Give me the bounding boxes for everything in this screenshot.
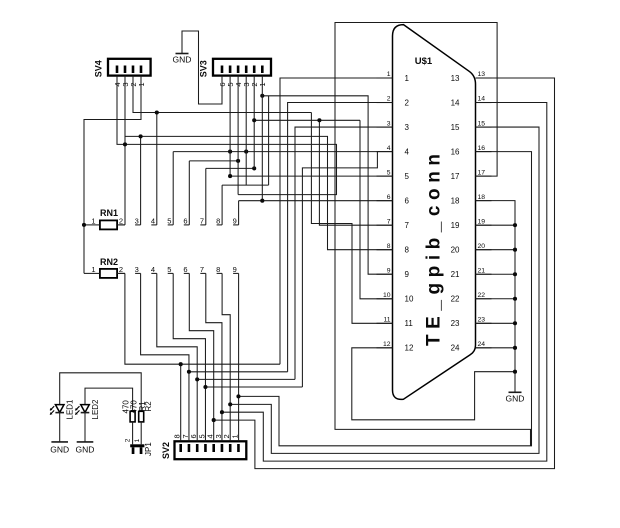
- svg-text:8: 8: [216, 265, 220, 274]
- svg-text:GND: GND: [76, 445, 95, 455]
- ground GND (below U$1): [506, 392, 525, 403]
- svg-text:GND: GND: [506, 394, 525, 404]
- svg-text:9: 9: [387, 267, 391, 274]
- wire SV4 pin2 net to U$1 pin11: [133, 76, 393, 324]
- junction GND bus 274: [513, 272, 517, 276]
- connector U$1 TE_gpib_conn body: [393, 25, 476, 400]
- svg-text:3: 3: [135, 217, 139, 226]
- svg-text:14: 14: [451, 98, 460, 107]
- resistor network RN1: [84, 208, 125, 229]
- wire U$1 pin15 / SV2 pin2 / RN2 pin8 net: [222, 127, 539, 453]
- junction SV2 pin2: [228, 402, 232, 406]
- svg-text:GND: GND: [50, 445, 69, 455]
- svg-text:U$1: U$1: [415, 56, 433, 67]
- svg-text:20: 20: [451, 246, 460, 255]
- svg-text:7: 7: [405, 221, 410, 230]
- wire RN1 pin6 to SV3 pin4: [189, 161, 238, 225]
- wire SV3 pin1 vertical: [261, 76, 263, 201]
- U$1 left pin stubs 1-12 with pad and pin numbers: [377, 71, 414, 353]
- wire U$1 pin12 to GND bus: [352, 348, 515, 420]
- SV4 pin labels 4 3 2 1: [113, 83, 146, 87]
- svg-text:5: 5: [405, 172, 410, 181]
- ground GND (top, SV3 pin 6): [173, 54, 192, 65]
- svg-text:5: 5: [167, 265, 171, 274]
- svg-text:1: 1: [230, 434, 239, 438]
- svg-text:5: 5: [167, 217, 171, 226]
- wire U$1 pin4 / SV2 pin5 / RN2 pin5 net: [173, 152, 392, 442]
- junction SV2 pin4: [212, 418, 216, 422]
- wire GND bus U$1 pins 18-24: [476, 201, 516, 393]
- svg-text:10: 10: [405, 295, 414, 304]
- svg-text:6: 6: [183, 265, 187, 274]
- svg-text:16: 16: [451, 147, 460, 156]
- svg-text:6: 6: [183, 217, 187, 226]
- wire U$1 pin13 / SV2 pin4 / RN2 pin6 net: [189, 78, 554, 469]
- wire RN1 pin5 / SV3 pin5 / U$1 pin4 row line: [173, 152, 377, 225]
- svg-text:7: 7: [200, 217, 204, 226]
- svg-text:1: 1: [91, 217, 95, 226]
- LED LED2: [75, 399, 100, 442]
- svg-text:5: 5: [387, 169, 391, 176]
- svg-text:3: 3: [387, 120, 391, 127]
- svg-text:16: 16: [478, 145, 486, 152]
- svg-text:R2: R2: [144, 401, 153, 412]
- svg-text:11: 11: [405, 319, 414, 328]
- SV3 pin labels 6 5 4 3 2 1: [218, 83, 267, 87]
- svg-text:21: 21: [451, 270, 460, 279]
- svg-text:15: 15: [478, 120, 486, 127]
- svg-text:RN1: RN1: [100, 208, 118, 218]
- junction SV3 pin4: [236, 159, 240, 163]
- junction on SV3 pin3: [244, 150, 248, 154]
- junction SV3 pin2 lower: [252, 166, 256, 170]
- wire RN1 pin9 / U$1 pin6 line: [239, 201, 393, 225]
- svg-text:13: 13: [451, 74, 460, 83]
- svg-text:17: 17: [478, 169, 486, 176]
- wire SV3 pin2 vertical: [253, 76, 255, 169]
- wire U$1 pin2 / SV2 pin7 / RN2 pin3 net: [141, 103, 393, 442]
- svg-text:1: 1: [91, 265, 95, 274]
- svg-text:24: 24: [478, 341, 486, 348]
- svg-text:3: 3: [405, 123, 410, 132]
- svg-text:23: 23: [451, 319, 460, 328]
- svg-text:7: 7: [200, 265, 204, 274]
- svg-text:19: 19: [451, 221, 460, 230]
- svg-text:20: 20: [478, 243, 486, 250]
- connector SV2: [161, 441, 246, 459]
- connector SV3: [199, 59, 272, 77]
- svg-text:2: 2: [119, 217, 123, 226]
- U$1 right pin stubs 13-24 with pad and pin numbers: [451, 71, 492, 353]
- svg-text:JP1: JP1: [144, 442, 153, 456]
- svg-text:1: 1: [387, 71, 391, 78]
- svg-text:470: 470: [129, 400, 138, 414]
- svg-text:13: 13: [478, 71, 486, 78]
- svg-text:15: 15: [451, 123, 460, 132]
- junction GND bus 348: [513, 346, 517, 350]
- junction SV2 pin3: [220, 410, 224, 414]
- svg-text:8: 8: [387, 243, 391, 250]
- svg-text:2: 2: [124, 438, 131, 442]
- RN2 pin labels and stubs 1..9: [91, 265, 238, 274]
- wire U$1 pin16 / SV2 pin1 / RN2 pin9 net: [238, 152, 531, 446]
- wire line A RN1 pin3 to U$1 pin8: [125, 136, 392, 249]
- wire SV4 pin4 line B: [117, 76, 337, 195]
- resistor R2: [139, 411, 144, 444]
- junction on SV3 pin5: [228, 150, 232, 154]
- RN1 pin labels and stubs 1..9: [91, 217, 238, 226]
- junction line B / SV4 pin3: [123, 142, 127, 146]
- svg-text:9: 9: [405, 270, 410, 279]
- jumper JP1: [130, 442, 153, 456]
- svg-text:TE_gpib_conn: TE_gpib_conn: [424, 154, 445, 346]
- svg-text:8: 8: [216, 217, 220, 226]
- wire U$1 pin1 / SV2 pin8 / RN2 pin2 net: [125, 78, 393, 441]
- wire RN1 pin8 / SV3 pin3: [222, 76, 269, 225]
- svg-text:8: 8: [405, 246, 410, 255]
- svg-text:SV2: SV2: [161, 442, 171, 459]
- svg-text:4: 4: [151, 265, 155, 274]
- svg-text:18: 18: [478, 194, 486, 201]
- junction SV3 pin1 upper: [260, 94, 264, 98]
- svg-text:RN2: RN2: [100, 257, 118, 267]
- svg-text:6: 6: [387, 194, 391, 201]
- svg-text:1: 1: [134, 438, 141, 442]
- svg-text:24: 24: [451, 344, 460, 353]
- junction GND bus 323: [513, 321, 517, 325]
- svg-text:18: 18: [451, 197, 460, 206]
- junction SV4 pin2 / RN1 pin4: [155, 110, 159, 114]
- svg-text:1: 1: [405, 74, 410, 83]
- junction SV3 pin2 upper: [252, 118, 256, 122]
- svg-text:2: 2: [119, 265, 123, 274]
- junction GND bus shield: [513, 370, 517, 374]
- wire LED1 to R2 bridge: [60, 373, 142, 412]
- wire U$1 pin14 / SV2 pin3 / RN2 pin7 net: [206, 103, 547, 462]
- svg-text:17: 17: [451, 172, 460, 181]
- svg-text:4: 4: [405, 147, 410, 156]
- svg-text:23: 23: [478, 317, 486, 324]
- svg-text:12: 12: [383, 341, 391, 348]
- JP1 pin labels 2 1: [124, 438, 141, 442]
- junction line A / RN1 pin3: [139, 134, 143, 138]
- svg-text:22: 22: [451, 295, 460, 304]
- junction at RN1 pin1: [82, 223, 86, 227]
- svg-text:7: 7: [387, 218, 391, 225]
- wire SV4 pin3 to RN1 pin2: [124, 76, 126, 225]
- junction SV2 pin6: [195, 377, 199, 381]
- junction SV2 pin5: [203, 385, 207, 389]
- ground GND (LED1): [50, 442, 69, 455]
- LED LED1: [50, 399, 75, 442]
- wire U$1 pin17 REN loop: [335, 23, 531, 446]
- svg-text:11: 11: [383, 317, 390, 324]
- resistor network RN2: [84, 257, 125, 278]
- wire SV3 pin1 branch to U$1 pin9: [262, 96, 392, 274]
- svg-text:10: 10: [383, 292, 391, 299]
- ground GND (LED2): [76, 442, 95, 455]
- junction SV3 pin1 lower: [260, 199, 264, 203]
- svg-text:4: 4: [151, 217, 155, 226]
- svg-text:6: 6: [405, 197, 410, 206]
- junction pin7 branch: [317, 118, 321, 122]
- junction GND bus 250: [513, 248, 517, 252]
- svg-text:2: 2: [405, 98, 410, 107]
- svg-text:SV3: SV3: [199, 60, 209, 77]
- junction GND bus 299: [513, 297, 517, 301]
- svg-text:4: 4: [387, 145, 391, 152]
- svg-text:9: 9: [233, 217, 237, 226]
- svg-text:3: 3: [135, 265, 139, 274]
- svg-text:LED1: LED1: [66, 399, 75, 420]
- svg-text:SV4: SV4: [94, 60, 104, 77]
- svg-text:GND: GND: [173, 55, 192, 65]
- svg-text:22: 22: [478, 292, 486, 299]
- junction SV2 pin7: [187, 370, 191, 374]
- svg-text:14: 14: [478, 96, 486, 103]
- svg-text:21: 21: [478, 267, 486, 274]
- wire RN1 pin7 to SV3 pin2: [206, 168, 254, 225]
- wire SV3 pin2 line to U$1 pin7 and pin10: [254, 120, 392, 298]
- wire SV4 pin1 / RN1 pin1 / RN2 pin1 net: [84, 76, 141, 274]
- svg-text:12: 12: [405, 344, 414, 353]
- wire U$1 pin3 / SV2 pin6 / RN2 pin4 net: [157, 127, 393, 441]
- junction SV2 pin1: [236, 394, 240, 398]
- junction SV2 pin8: [179, 362, 183, 366]
- svg-text:LED2: LED2: [91, 399, 100, 420]
- wire LED2 to R1 bridge: [85, 388, 133, 411]
- svg-text:2: 2: [387, 96, 391, 103]
- junction SV3 pin5 / pin5 line: [228, 174, 232, 178]
- wire SV3 pin5 vertical and U$1 pin5 line: [230, 76, 392, 177]
- connector SV4: [94, 59, 151, 77]
- wire SV3 pin4 vertical: [237, 76, 239, 195]
- wire SV3 pin6 to GND: [182, 31, 222, 104]
- svg-text:19: 19: [478, 218, 486, 225]
- junction GND bus 225: [513, 223, 517, 227]
- resistor R1: [130, 411, 135, 444]
- SV2 pin labels 8..1: [173, 434, 240, 438]
- svg-text:9: 9: [233, 265, 237, 274]
